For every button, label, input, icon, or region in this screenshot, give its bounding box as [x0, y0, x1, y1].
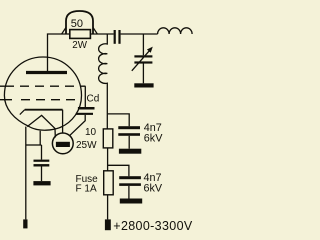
- grid 2 (dashed): [0, 99, 76, 101]
- ground (filament bypass): [33, 181, 50, 185]
- svg-text:F 1A: F 1A: [76, 184, 97, 195]
- capacitor filament bypass: [34, 145, 50, 181]
- coupling capacitor: [114, 30, 121, 44]
- wire branch to C2: [108, 165, 129, 176]
- wire filament tie: [26, 144, 42, 146]
- filament: [27, 115, 55, 137]
- filament lead 2: [39, 131, 41, 145]
- svg-text:25W: 25W: [76, 140, 97, 151]
- svg-text:6kV: 6kV: [144, 183, 163, 195]
- fuse F1: [104, 171, 114, 195]
- capacitor C2 4n7: [119, 176, 141, 198]
- capacitor Cd: [70, 86, 95, 135]
- anode plate: [26, 71, 67, 74]
- wire R2 to fuse: [107, 148, 109, 171]
- terminal filament: [23, 219, 27, 228]
- cathode: [20, 110, 63, 115]
- wire cap to coil: [121, 33, 158, 35]
- wire filament down lead: [25, 127, 27, 220]
- wire fuse to terminal: [107, 195, 109, 220]
- svg-text:2W: 2W: [72, 40, 87, 51]
- svg-text:50: 50: [71, 18, 83, 30]
- wire cathode lead: [62, 110, 64, 134]
- terminal +HV: [105, 219, 111, 230]
- tank coil L3: [158, 28, 193, 34]
- ground (C2): [120, 199, 142, 204]
- resistor R2 10 ohm: [103, 129, 113, 148]
- variable capacitor: [132, 34, 153, 83]
- RF choke L2: [99, 34, 108, 129]
- wire anode lead: [48, 34, 63, 73]
- wire anode to choke junction: [62, 33, 114, 35]
- svg-text:Cd: Cd: [87, 94, 100, 105]
- ground (variable capacitor): [134, 83, 153, 87]
- wire branch to C1: [108, 114, 130, 126]
- capacitor C1 4n7: [118, 126, 140, 149]
- parasitic suppressor R1/L1 arch: [62, 11, 98, 38]
- filament connector (circle with bar): [52, 133, 73, 154]
- grid 1 (dashed): [0, 85, 86, 87]
- tube V1 envelope: [4, 57, 81, 130]
- svg-text:+2800-3300V: +2800-3300V: [113, 219, 193, 233]
- svg-text:6kV: 6kV: [144, 133, 163, 145]
- svg-text:10: 10: [85, 127, 97, 138]
- ground (C1): [119, 149, 141, 154]
